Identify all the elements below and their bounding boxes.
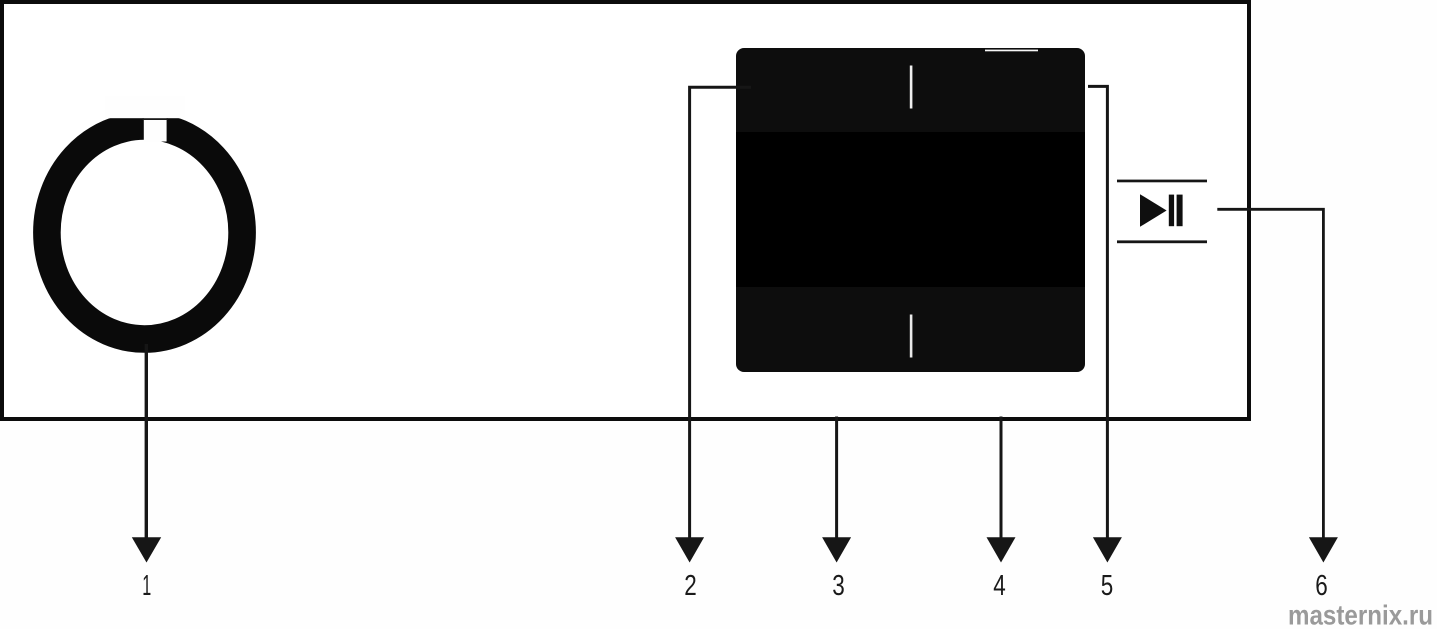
display top white tick: [910, 66, 913, 109]
callout line 2 (from display left): [690, 87, 751, 539]
pause bar left: [1169, 195, 1174, 227]
display body: [736, 48, 1085, 372]
program selector knob (ring): [47, 126, 242, 339]
knob flattened top near gap: [105, 96, 185, 118]
start/pause button top line: [1117, 180, 1207, 183]
pause bar right: [1177, 195, 1183, 227]
arrowhead 1: [132, 537, 161, 562]
svg-text:3: 3: [832, 570, 845, 602]
arrowhead 5: [1093, 537, 1122, 562]
svg-text:6: 6: [1315, 570, 1328, 602]
arrowhead 6: [1309, 537, 1338, 562]
thin outer rim line across gap: [143, 118, 168, 120]
play triangle icon: [1140, 194, 1167, 227]
control panel outline: [2, 2, 1249, 419]
callout line 4 (from panel bottom edge): [1000, 417, 1003, 540]
callout line 5 (from display right): [1088, 86, 1107, 539]
knob pointer gap (white notch): [144, 103, 167, 142]
arrowhead 4: [987, 537, 1016, 562]
display middle black band: [736, 132, 1085, 287]
svg-text:4: 4: [993, 570, 1006, 602]
display bottom white tick: [910, 315, 913, 358]
callout line 3 (from panel bottom edge): [835, 417, 838, 540]
svg-text:masternix.ru: masternix.ru: [1288, 600, 1433, 629]
svg-text:5: 5: [1101, 570, 1114, 602]
svg-text:1: 1: [142, 570, 151, 602]
callout line 1: [145, 344, 148, 539]
start/pause button bottom line: [1117, 240, 1207, 243]
callout line 6 (from button, crossing panel edge): [1217, 209, 1323, 539]
arrowhead 3: [822, 537, 851, 562]
svg-text:2: 2: [684, 570, 697, 602]
thin white seam at display top right: [985, 50, 1038, 52]
arrowhead 2: [675, 537, 704, 562]
